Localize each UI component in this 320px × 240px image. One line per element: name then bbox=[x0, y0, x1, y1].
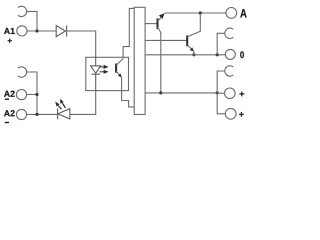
transistor T2 bbox=[186, 35, 188, 46]
bridge contact mid-left bbox=[18, 67, 27, 77]
wire T1 base bbox=[145, 23, 157, 25]
wire right bus bbox=[217, 71, 225, 114]
terminal A bbox=[226, 7, 237, 18]
opto phototransistor bbox=[115, 64, 117, 73]
terminal A1 bbox=[17, 26, 27, 36]
label A2 lower bbox=[4, 110, 15, 116]
node junction bbox=[35, 93, 38, 96]
terminal plus upper bbox=[225, 88, 236, 99]
wire bbox=[27, 94, 37, 96]
label A2 upper bbox=[4, 91, 15, 97]
terminal plus lower bbox=[225, 108, 236, 119]
wire 0-line bbox=[145, 54, 225, 56]
label A bbox=[240, 9, 246, 17]
node junction bbox=[199, 11, 202, 14]
terminal A2 upper bbox=[16, 90, 26, 100]
label A1 bbox=[4, 28, 15, 34]
bridge contact right lower bbox=[225, 66, 234, 76]
bridge contact top-left bbox=[18, 6, 27, 16]
terminal A2 lower bbox=[16, 109, 26, 119]
label plus under A1 bbox=[8, 39, 12, 43]
LED indicator bbox=[58, 109, 70, 120]
label plus bbox=[239, 112, 244, 117]
transistor T1 bbox=[157, 18, 159, 29]
node junction bbox=[35, 113, 38, 116]
LED arrows bbox=[55, 99, 65, 110]
wire bbox=[27, 30, 56, 32]
bridge contact right upper bbox=[225, 28, 234, 38]
node junction bbox=[159, 91, 162, 94]
opto LED bbox=[91, 57, 101, 90]
wire bbox=[27, 72, 38, 115]
optocoupler box bbox=[86, 57, 129, 90]
terminal 0 bbox=[225, 49, 235, 59]
label plus bbox=[240, 92, 245, 97]
node junction bbox=[216, 91, 219, 94]
diode D1 bbox=[56, 26, 66, 37]
label minus bbox=[5, 99, 9, 100]
collector path to driver bbox=[123, 8, 134, 58]
wire bbox=[67, 31, 96, 57]
wire bbox=[27, 113, 58, 115]
top rail bbox=[164, 12, 226, 14]
opto arrows bbox=[100, 65, 109, 74]
node junction bbox=[35, 29, 38, 32]
wire bbox=[70, 91, 96, 115]
label 0 bbox=[240, 51, 244, 58]
wire bbox=[217, 92, 224, 94]
wire plus-line bbox=[145, 92, 217, 94]
wire bbox=[217, 33, 225, 55]
label minus bbox=[5, 122, 9, 123]
wire bbox=[27, 11, 38, 31]
emitter path to driver bbox=[122, 77, 135, 107]
wire T2 base bbox=[145, 39, 187, 41]
node junction bbox=[216, 53, 219, 56]
node junction bbox=[192, 53, 195, 56]
driver block bbox=[134, 7, 145, 114]
